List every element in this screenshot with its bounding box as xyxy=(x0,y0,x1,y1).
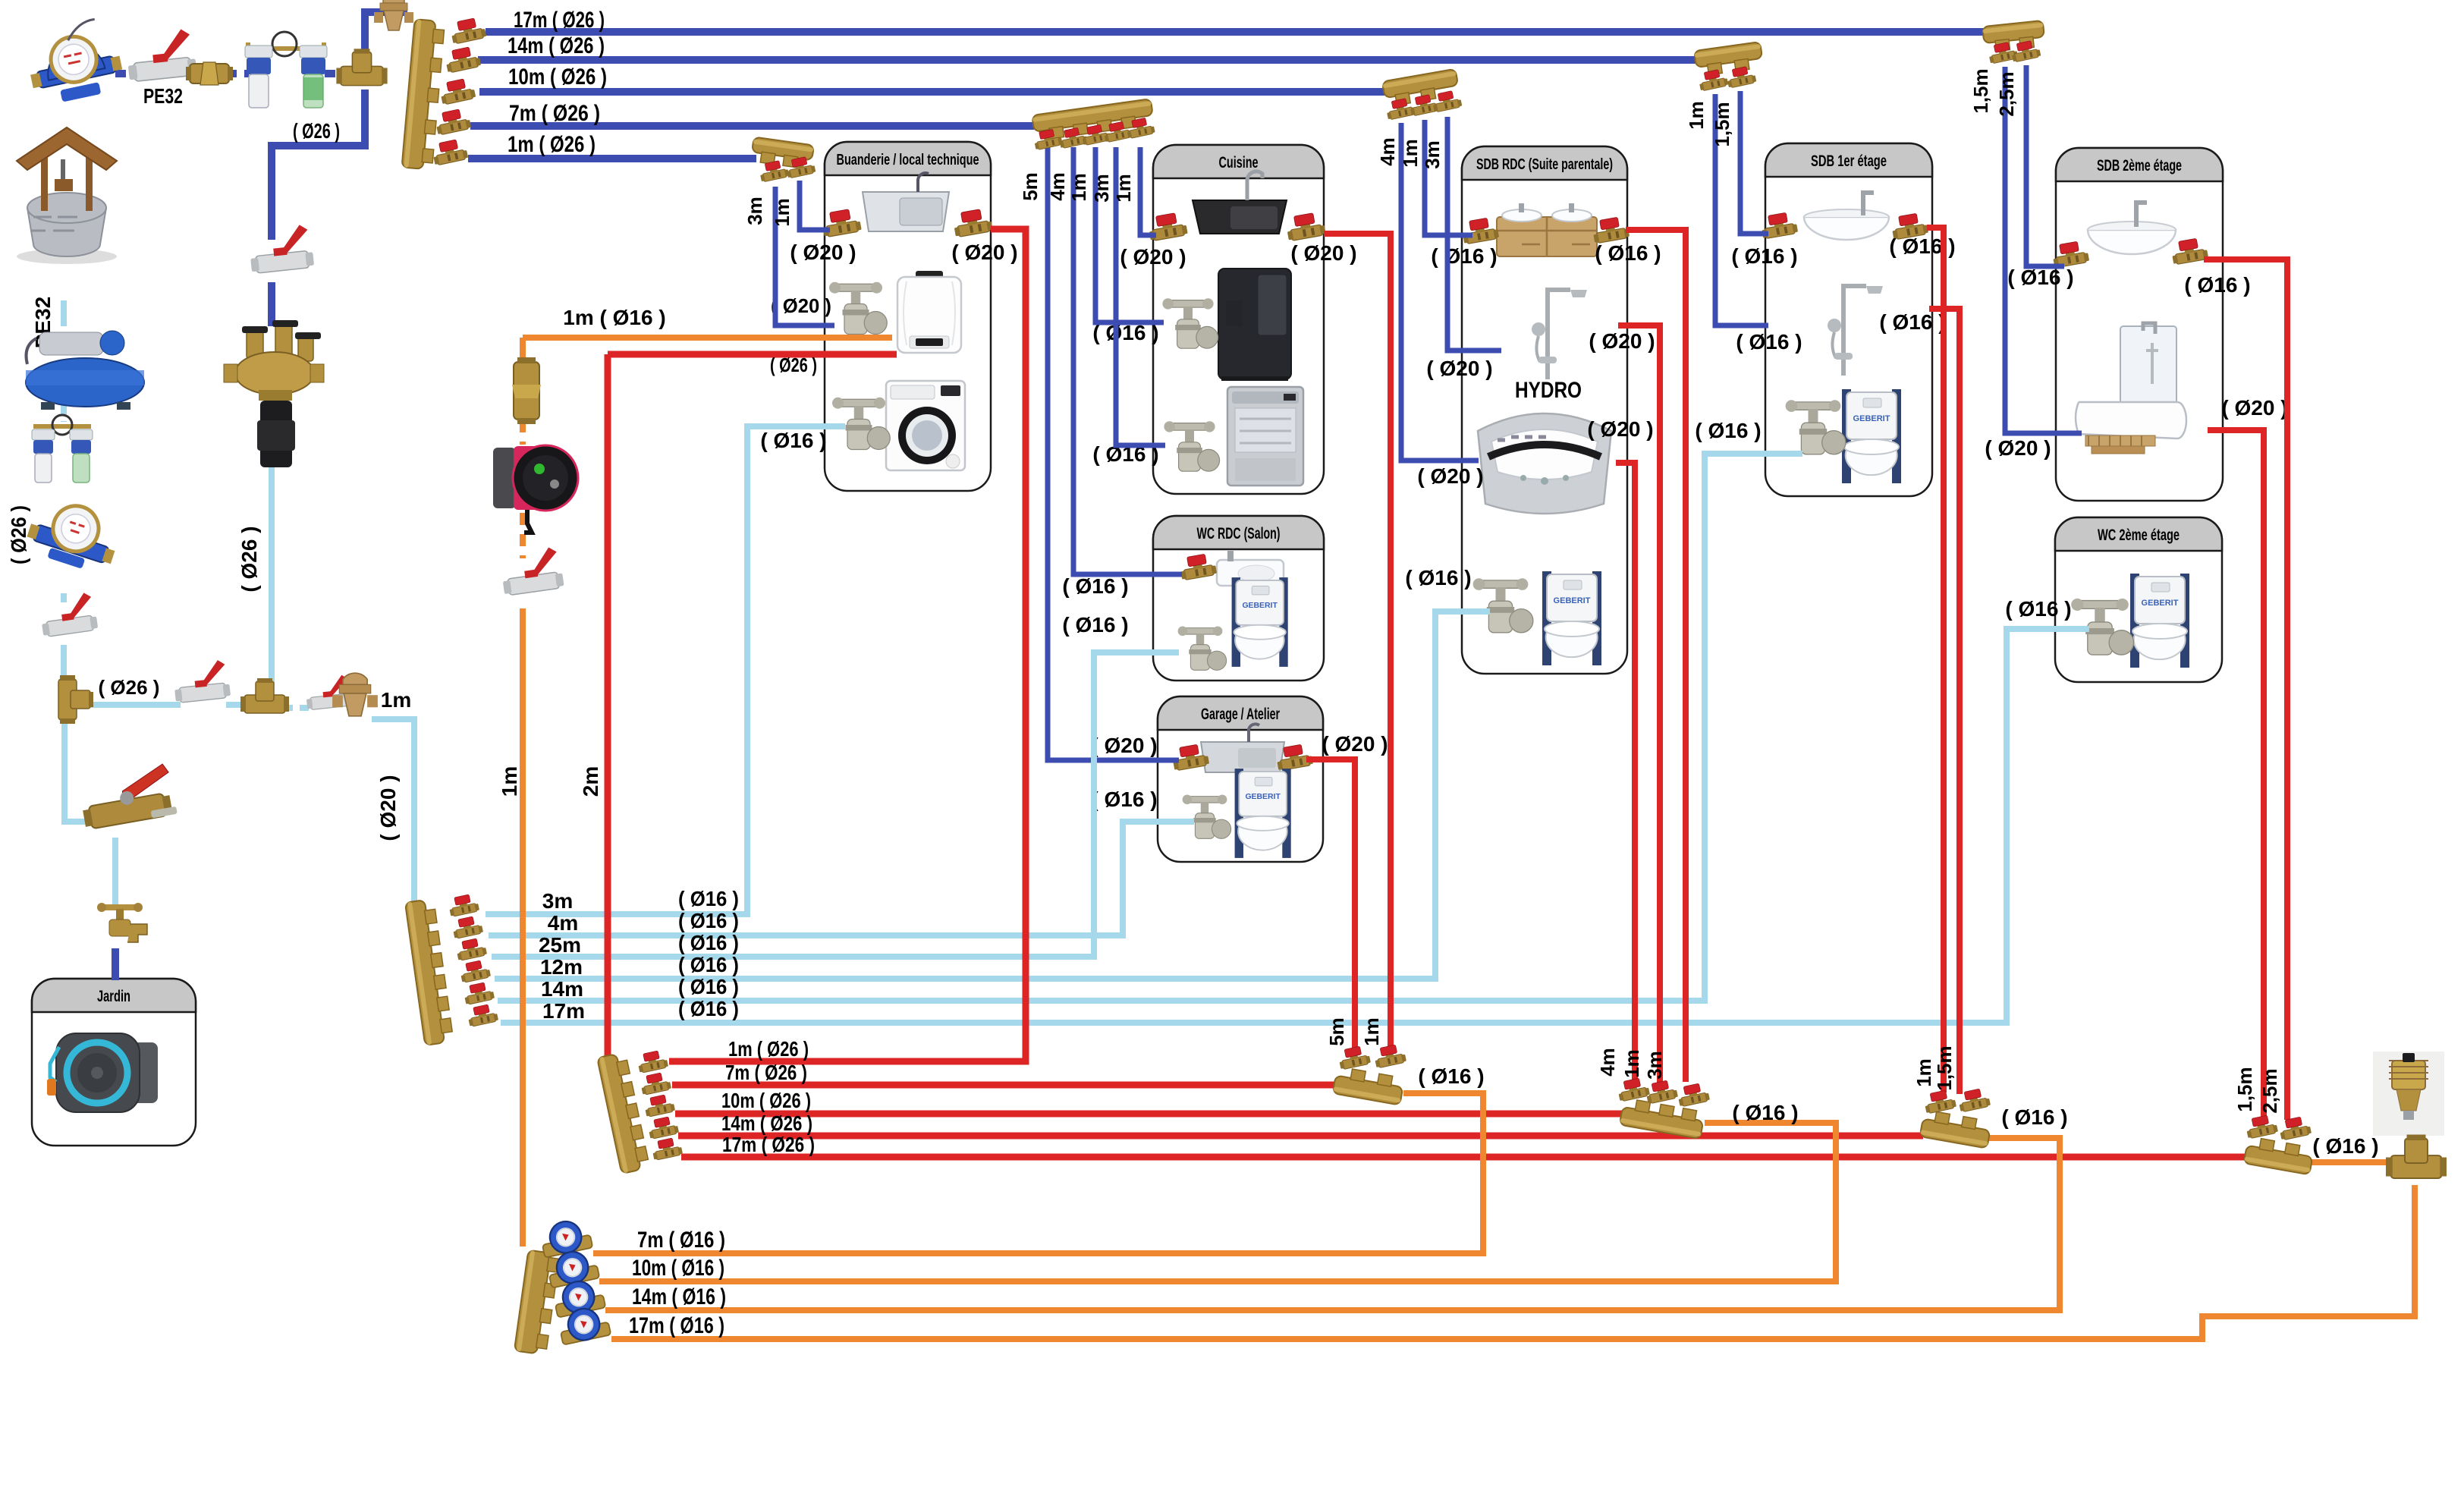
wire cyan 12m to SDBRDC WC xyxy=(495,611,1490,979)
pressure reducer garden xyxy=(332,673,378,716)
tap dishwasher xyxy=(1164,421,1219,471)
valve H1-3 xyxy=(643,1093,676,1118)
svg-text:2,5m: 2,5m xyxy=(1995,71,2018,116)
svg-text:( Ø16 ): ( Ø16 ) xyxy=(1418,1064,1484,1088)
duplex filter unit xyxy=(245,32,327,108)
tap wc rdc cistern xyxy=(1178,627,1227,671)
svg-text:( Ø20 ): ( Ø20 ) xyxy=(1587,417,1653,441)
valve H1-5 xyxy=(651,1136,684,1161)
svg-text:14m: 14m xyxy=(541,977,583,1001)
wire valve-tee2 link xyxy=(226,702,249,708)
main stop valve xyxy=(125,28,197,82)
shower hydro xyxy=(1532,290,1587,379)
svg-text:( Ø26 ): ( Ø26 ) xyxy=(7,505,30,564)
water meter city xyxy=(22,16,127,108)
svg-text:( Ø20 ): ( Ø20 ) xyxy=(790,240,856,264)
valve M1-1 xyxy=(449,17,487,45)
svg-text:( Ø16 ): ( Ø16 ) xyxy=(1062,613,1128,637)
svg-text:5m: 5m xyxy=(1019,172,1042,201)
wire hot riser SDBRDC vanity xyxy=(1626,230,1686,1082)
svg-text:( Ø16 ): ( Ø16 ) xyxy=(678,975,739,998)
zone box SDB RDC: SDB RDC (Suite parentale) xyxy=(1462,146,1627,674)
wire cold main 7m to M2 xyxy=(470,122,1034,130)
wire well PE32 link xyxy=(61,300,67,326)
pressure reducer top xyxy=(374,0,413,30)
vasque sdb2 xyxy=(2088,203,2176,254)
svg-text:17m ( Ø16 ): 17m ( Ø16 ) xyxy=(629,1313,724,1338)
wire cyan 3m to Buanderie WM xyxy=(486,426,845,914)
hose reel xyxy=(47,1033,158,1112)
valve H1-2 xyxy=(640,1071,672,1096)
valve vanity cold xyxy=(1460,216,1499,244)
buanderie sink xyxy=(863,173,949,231)
svg-text:5m: 5m xyxy=(1325,1017,1348,1046)
zone box SDB2: SDB 2ème étage xyxy=(2056,148,2223,501)
valve M3-3 xyxy=(1431,90,1462,113)
wire orange H5 to vent tee xyxy=(2311,1159,2393,1165)
wire cold main 17m to M4 xyxy=(486,28,1985,36)
valve M3-1 xyxy=(1384,97,1416,121)
wire orange main down to C3 xyxy=(520,608,526,1247)
valve H4-2 xyxy=(1957,1087,1991,1112)
svg-text:( Ø16 ): ( Ø16 ) xyxy=(1431,244,1497,268)
brass tee main xyxy=(336,49,387,85)
svg-text:( Ø16 ): ( Ø16 ) xyxy=(1405,566,1471,589)
svg-text:3m: 3m xyxy=(1421,140,1444,169)
svg-text:1m: 1m xyxy=(1912,1058,1935,1087)
wire tap to jardin box xyxy=(112,948,119,980)
wire cold M2 5m to garage sink xyxy=(1048,147,1179,760)
vanity double xyxy=(1497,203,1597,256)
wire tee down to valve xyxy=(272,90,365,240)
valve M1-3 xyxy=(438,77,476,105)
svg-text:1m: 1m xyxy=(771,198,794,227)
wire cyan 25m to WC RDC xyxy=(492,652,1179,957)
svg-text:( Ø20 ): ( Ø20 ) xyxy=(1322,732,1388,756)
svg-text:SDB RDC (Suite parentale): SDB RDC (Suite parentale) xyxy=(1476,156,1613,173)
wire hot riser garage 5m xyxy=(1306,759,1355,1048)
wire tee up to manifold M1 xyxy=(365,12,407,56)
garage toilet xyxy=(1235,769,1291,858)
tap washing machine xyxy=(832,398,890,450)
svg-text:17m ( Ø26 ): 17m ( Ø26 ) xyxy=(722,1133,815,1156)
well xyxy=(17,127,117,264)
svg-text:7m ( Ø16 ): 7m ( Ø16 ) xyxy=(637,1228,725,1253)
svg-text:7m ( Ø26 ): 7m ( Ø26 ) xyxy=(509,101,600,126)
svg-text:12m: 12m xyxy=(540,955,583,979)
wire cold B1 1m to sink xyxy=(800,181,830,230)
svg-text:( Ø20 ): ( Ø20 ) xyxy=(1290,241,1356,265)
svg-text:1m: 1m xyxy=(1112,174,1135,203)
valve M3-2 xyxy=(1408,93,1439,117)
wire orange 1m to boiler xyxy=(523,335,892,341)
svg-text:1m: 1m xyxy=(381,688,411,712)
garden tap xyxy=(97,903,147,942)
svg-text:1m: 1m xyxy=(1360,1017,1383,1046)
svg-text:SDB 2ème étage: SDB 2ème étage xyxy=(2097,157,2182,174)
fridge xyxy=(1218,269,1291,381)
wire cold M2 1m to cuisine sink xyxy=(1140,147,1156,235)
vasque sdb1 xyxy=(1804,193,1889,240)
valve M5-1 xyxy=(1697,68,1728,92)
wire hot riser cuisine 1m xyxy=(1324,234,1391,1048)
wire orange 17m return vent xyxy=(611,1185,2415,1339)
svg-text:( Ø16 ): ( Ø16 ) xyxy=(2005,597,2071,621)
wire hot 17m to H5 xyxy=(681,1154,2249,1161)
svg-text:14m ( Ø26 ): 14m ( Ø26 ) xyxy=(721,1111,812,1135)
valve cuisine sink cold xyxy=(1147,212,1188,241)
dishwasher xyxy=(1227,387,1303,486)
wire tee1 down to garden valve xyxy=(64,719,93,822)
corner bath xyxy=(1478,413,1611,514)
wire hot riser SDB2 bath 1,5m xyxy=(2208,430,2264,1118)
wire check-filter link xyxy=(226,70,249,77)
svg-text:( Ø20 ): ( Ø20 ) xyxy=(1417,464,1483,488)
wire hot riser SDBRDC shower xyxy=(1618,325,1660,1085)
valve C2-5 xyxy=(463,981,495,1005)
svg-text:10m ( Ø26 ): 10m ( Ø26 ) xyxy=(508,64,607,90)
svg-text:( Ø16 ): ( Ø16 ) xyxy=(678,953,739,976)
svg-text:( Ø16 ): ( Ø16 ) xyxy=(678,997,739,1020)
valve sdb1 vasque hot xyxy=(1890,212,1928,240)
svg-text:( Ø26 ): ( Ø26 ) xyxy=(293,119,340,143)
svg-text:2,5m: 2,5m xyxy=(2258,1068,2281,1113)
svg-text:10m ( Ø16 ): 10m ( Ø16 ) xyxy=(632,1256,724,1281)
wire hot riser SDB2 vasque 2,5m xyxy=(2204,259,2287,1120)
svg-text:14m ( Ø26 ): 14m ( Ø26 ) xyxy=(508,33,605,58)
zone box Jardin: Jardin xyxy=(32,979,196,1146)
tap garage cistern xyxy=(1183,795,1231,839)
valve M2-2 xyxy=(1058,126,1088,149)
svg-text:3m: 3m xyxy=(542,889,573,913)
svg-text:( Ø20 ): ( Ø20 ) xyxy=(376,775,400,841)
valve vanity hot xyxy=(1591,215,1630,244)
tap wc2 cistern xyxy=(2071,599,2133,655)
cuisine sink black xyxy=(1193,171,1287,234)
garden main valve xyxy=(77,763,178,830)
tap boiler cold xyxy=(829,282,887,335)
wire boiler hot out xyxy=(608,351,897,358)
wire hot riser SDBRDC bath xyxy=(1616,463,1635,1080)
svg-text:1m: 1m xyxy=(1620,1049,1643,1078)
junction valve xyxy=(172,659,231,703)
svg-text:( Ø26 ): ( Ø26 ) xyxy=(99,676,160,699)
svg-text:4m: 4m xyxy=(1376,137,1399,166)
valve garage sink hot xyxy=(1274,743,1313,771)
manifold H2 xyxy=(1333,1067,1405,1105)
svg-text:( Ø20 ): ( Ø20 ) xyxy=(1426,357,1492,380)
isolation valve before disconnector xyxy=(247,224,314,274)
svg-text:25m: 25m xyxy=(539,933,581,957)
wire cold M5 1,5m to shower SDB1 xyxy=(1715,94,1768,325)
zone box WC2: WC 2ème étage xyxy=(2055,517,2222,682)
zone box Cuisine: Cuisine xyxy=(1153,145,1324,494)
svg-text:( Ø16 ): ( Ø16 ) xyxy=(1731,244,1797,268)
svg-text:1m: 1m xyxy=(1399,139,1422,168)
zone box SDB1: SDB 1er étage xyxy=(1765,143,1932,496)
valve wc rdc lavabo xyxy=(1178,552,1217,580)
wire cold B1 3m to boiler tap xyxy=(775,187,834,325)
duplex filter well xyxy=(32,415,93,483)
wire cold main 14m to M5 xyxy=(478,56,1696,64)
wire meter-valve link xyxy=(115,70,140,77)
manifold M3 SDB RDC xyxy=(1382,69,1460,108)
wire meter-valve link2 xyxy=(61,593,67,607)
valve buanderie sink hot xyxy=(952,208,993,237)
valve cuisine sink hot xyxy=(1285,212,1326,241)
wire valve-tee1 link xyxy=(61,645,67,677)
svg-text:( Ø16 ): ( Ø16 ) xyxy=(2001,1105,2067,1129)
svg-text:1,5m: 1,5m xyxy=(1969,68,1992,113)
wire orange v2 xyxy=(520,420,526,445)
svg-text:SDB 1er étage: SDB 1er étage xyxy=(1811,152,1887,170)
backflow disconnector xyxy=(224,320,324,467)
wire cold M3 1m to vanity xyxy=(1425,120,1472,235)
svg-text:( Ø20 ): ( Ø20 ) xyxy=(1091,734,1157,757)
wire cold M2 3m to dishwasher xyxy=(1116,147,1165,445)
svg-text:( Ø16 ): ( Ø16 ) xyxy=(1595,241,1661,265)
valve M1-5 xyxy=(431,138,469,166)
svg-text:( Ø20 ): ( Ø20 ) xyxy=(951,240,1017,264)
sdb rdc toilet xyxy=(1542,571,1601,665)
wire hot riser SDB1 shower 1,5m xyxy=(1929,309,1960,1094)
wire cyan 17m to WC2 xyxy=(501,629,2089,1023)
svg-text:( Ø26 ): ( Ø26 ) xyxy=(770,354,817,376)
svg-text:2m: 2m xyxy=(579,766,602,797)
svg-text:Garage / Atelier: Garage / Atelier xyxy=(1201,706,1280,723)
svg-text:Jardin: Jardin xyxy=(97,988,130,1005)
manifold M5 SDB1er xyxy=(1694,42,1764,77)
valve H2-2 xyxy=(1373,1043,1407,1068)
svg-text:( Ø16 ): ( Ø16 ) xyxy=(1091,788,1157,811)
zone box Garage: Garage / Atelier xyxy=(1158,696,1323,862)
valve B1-1 xyxy=(758,159,789,183)
svg-text:( Ø16 ): ( Ø16 ) xyxy=(1736,330,1802,354)
svg-text:( Ø26 ): ( Ø26 ) xyxy=(237,526,261,592)
valve H5-1 xyxy=(2245,1114,2279,1139)
valve garage sink cold xyxy=(1171,743,1209,771)
valve H2-1 xyxy=(1337,1045,1372,1070)
tap fridge xyxy=(1162,298,1218,348)
svg-text:1,5m: 1,5m xyxy=(2233,1067,2256,1111)
svg-text:1m ( Ø26 ): 1m ( Ø26 ) xyxy=(508,132,596,157)
svg-text:WC RDC (Salon): WC RDC (Salon) xyxy=(1197,525,1281,542)
valve M4-1 xyxy=(1987,41,2018,64)
wire cold M3 3m to shower xyxy=(1447,117,1501,351)
svg-text:( Ø16 ): ( Ø16 ) xyxy=(1695,419,1761,442)
wire reducer to C2 manifold xyxy=(372,719,414,907)
wire cold M4 1,5m to bath SDB2 xyxy=(2005,67,2082,433)
svg-text:1,5m: 1,5m xyxy=(1933,1045,1956,1090)
tee2 main junction xyxy=(240,678,289,713)
svg-text:( Ø16 ): ( Ø16 ) xyxy=(2007,266,2073,289)
svg-text:( Ø20 ): ( Ø20 ) xyxy=(1589,329,1655,353)
svg-text:10m ( Ø26 ): 10m ( Ø26 ) xyxy=(721,1089,811,1112)
svg-text:17m: 17m xyxy=(542,999,585,1023)
svg-text:1m: 1m xyxy=(1067,173,1090,202)
valve M2-3 xyxy=(1080,123,1111,146)
valve B1-2 xyxy=(784,156,816,179)
manifold M4 SDB2 xyxy=(1982,20,2045,52)
valve H4-1 xyxy=(1923,1089,1957,1114)
valve M2-4 xyxy=(1102,120,1133,143)
wire hot 14m to H4 xyxy=(678,1133,1923,1140)
svg-text:( Ø16 ): ( Ø16 ) xyxy=(1062,574,1128,598)
wire cold M4 2,5m to vasque SDB2 xyxy=(2026,65,2064,266)
bath with screen sdb2 xyxy=(2076,323,2186,454)
zone box Buanderie: Buanderie / local technique xyxy=(825,142,991,491)
svg-text:( Ø20 ): ( Ø20 ) xyxy=(1985,436,2051,460)
water meter well xyxy=(23,493,124,577)
svg-text:1m ( Ø26 ): 1m ( Ø26 ) xyxy=(728,1037,809,1061)
valve C2-4 xyxy=(459,959,492,983)
svg-text:1m ( Ø16 ): 1m ( Ø16 ) xyxy=(563,306,665,329)
wire cyan 14m to SDB1 WC xyxy=(498,454,1802,1001)
svg-text:( Ø16 ): ( Ø16 ) xyxy=(1732,1101,1798,1124)
svg-text:4m: 4m xyxy=(1596,1048,1619,1077)
valve sdb2 vasque hot xyxy=(2170,237,2208,265)
washing machine xyxy=(886,381,965,470)
svg-text:PE32: PE32 xyxy=(143,84,183,108)
valve M1-4 xyxy=(434,108,472,136)
valve H3-1 xyxy=(1617,1077,1651,1102)
wire cold M2 1m to fridge xyxy=(1095,147,1164,322)
valve H1-4 xyxy=(647,1115,680,1140)
svg-text:( Ø20 ): ( Ø20 ) xyxy=(2221,396,2287,420)
svg-text:7m ( Ø26 ): 7m ( Ø26 ) xyxy=(725,1061,807,1084)
valve C2-2 xyxy=(451,915,484,939)
svg-text:( Ø20 ): ( Ø20 ) xyxy=(771,294,831,317)
valve M1-2 xyxy=(444,46,482,74)
manifold C2 cold sub xyxy=(405,898,454,1045)
svg-text:( Ø16 ): ( Ø16 ) xyxy=(2312,1134,2378,1158)
booster pump xyxy=(26,331,144,410)
water meter C3-4 xyxy=(557,1304,611,1345)
wire orange 14m return H4 xyxy=(605,1138,2060,1310)
valve C2-3 xyxy=(455,937,488,961)
manifold H5 xyxy=(2244,1136,2315,1175)
wire orange 10m return H3 xyxy=(599,1123,1836,1281)
wire pump-filter link xyxy=(61,405,67,422)
lavabo wc rdc xyxy=(1217,551,1284,602)
wire cyan 4m to garage WC xyxy=(489,822,1194,935)
wire cold main 1m to B1 xyxy=(468,155,756,162)
tap sdb1 cistern xyxy=(1786,400,1846,454)
svg-text:WC 2ème étage: WC 2ème étage xyxy=(2098,527,2180,544)
tap sdb rdc cistern xyxy=(1473,578,1533,633)
svg-text:3m: 3m xyxy=(1090,174,1113,203)
garage sink xyxy=(1201,724,1284,772)
water meter C3-1 xyxy=(539,1217,593,1258)
wire cold M5 1m to vasque SDB1 xyxy=(1740,91,1768,234)
valve buanderie sink cold xyxy=(821,208,862,237)
air vent assembly xyxy=(2373,1052,2444,1136)
valve sdb2 vasque cold xyxy=(2051,240,2089,268)
wire hot riser SDB1 vasque 1m xyxy=(1927,228,1944,1092)
svg-text:( Ø16 ): ( Ø16 ) xyxy=(2184,273,2250,297)
svg-text:1,5m: 1,5m xyxy=(1711,102,1733,146)
wire garden valve to tap xyxy=(112,838,118,907)
svg-text:3m: 3m xyxy=(743,196,766,225)
water meter C3-2 xyxy=(545,1247,600,1288)
svg-text:( Ø16 ): ( Ø16 ) xyxy=(760,429,826,452)
valve M2-5 xyxy=(1125,116,1155,139)
manifold B1 Buanderie xyxy=(750,137,814,170)
svg-text:( Ø16 ): ( Ø16 ) xyxy=(678,909,739,932)
manifold C3 return xyxy=(514,1250,560,1356)
wire tee2-reducer link xyxy=(284,705,313,711)
valve H5-2 xyxy=(2278,1115,2312,1140)
wc rdc toilet xyxy=(1232,577,1288,667)
wire valve-check link xyxy=(188,70,199,77)
check valve PE32 xyxy=(186,62,233,85)
svg-text:( Ø20 ): ( Ø20 ) xyxy=(1120,245,1186,269)
wire tee1-valve h link xyxy=(83,702,181,708)
wire cold M2 4m to WC RDC lavabo xyxy=(1073,147,1182,574)
return stop valve xyxy=(499,546,564,596)
svg-text:1m: 1m xyxy=(498,766,521,797)
valve M5-2 xyxy=(1725,65,1756,89)
zone box WC RDC: WC RDC (Salon) xyxy=(1153,516,1324,681)
shower sdb1 xyxy=(1828,286,1883,376)
svg-text:4m: 4m xyxy=(1046,172,1069,201)
brass tee vent xyxy=(2386,1135,2447,1179)
svg-text:1m: 1m xyxy=(1685,101,1708,130)
valve H3-3 xyxy=(1677,1082,1711,1107)
manifold H1 hot sub xyxy=(597,1052,650,1174)
svg-text:Buanderie / local technique: Buanderie / local technique xyxy=(837,152,979,168)
water meter C3-3 xyxy=(552,1277,606,1318)
sdb1 toilet xyxy=(1842,389,1901,483)
svg-text:( Ø16 ): ( Ø16 ) xyxy=(1879,310,1945,334)
valve C2-6 xyxy=(467,1003,499,1027)
valve H3-2 xyxy=(1645,1079,1679,1104)
valve C2-1 xyxy=(448,893,480,917)
wire cold M3 4m to bath xyxy=(1401,123,1479,461)
well stop valve xyxy=(39,592,99,637)
wire hot drop 2m to H1 xyxy=(605,354,611,1062)
manifold H3 xyxy=(1620,1098,1705,1139)
svg-text:( Ø16 ): ( Ø16 ) xyxy=(678,931,739,954)
valve sdb1 vasque cold xyxy=(1759,211,1798,239)
svg-text:( Ø16 ): ( Ø16 ) xyxy=(678,887,739,910)
wire disconnector down to tee2 xyxy=(269,464,275,684)
wire orange v3 xyxy=(520,513,526,558)
manifold H4 xyxy=(1920,1110,1992,1149)
valve M4-2 xyxy=(2010,39,2041,63)
svg-text:Cuisine: Cuisine xyxy=(1219,154,1259,171)
wire hot 7m to H2 xyxy=(672,1082,1339,1089)
wire orange 7m return H2 xyxy=(593,1093,1483,1253)
manifold M1 cold main xyxy=(402,19,445,170)
svg-text:17m ( Ø26 ): 17m ( Ø26 ) xyxy=(514,8,605,33)
wire filter-tee link xyxy=(325,70,346,77)
svg-text:3m: 3m xyxy=(1643,1051,1666,1080)
valve M2-1 xyxy=(1032,127,1063,150)
wc2 toilet xyxy=(2130,574,2189,668)
tee1 well junction xyxy=(58,675,93,724)
manifold M2 Cuisine xyxy=(1032,99,1154,141)
valve H1-1 xyxy=(636,1049,669,1074)
wire hot 1m to Buanderie sink xyxy=(669,229,1026,1061)
circulator pump xyxy=(493,445,578,533)
svg-text:4m: 4m xyxy=(548,911,578,935)
wire valve to disconnector xyxy=(268,282,275,326)
check valve orange xyxy=(512,357,541,424)
wire cold main 10m to M3 xyxy=(479,88,1384,96)
small valve before reducer xyxy=(304,674,352,710)
wire hot 10m to H3 xyxy=(675,1111,1626,1118)
